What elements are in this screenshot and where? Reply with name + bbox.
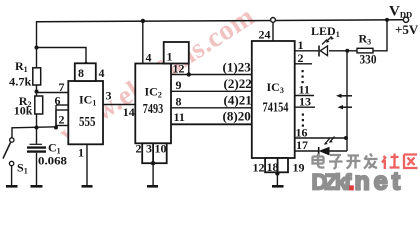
label R1 value 4.7k [9,75,32,89]
label pin 2 IC2 [136,142,142,156]
node junction R1 branch [35,46,39,50]
wire R3 to rail [373,20,387,51]
node junction LED bus [345,49,349,53]
社 [382,154,400,170]
wire bottom-left net [12,127,56,138]
wire IC1 pin 6 [56,104,68,106]
label pin 7 [59,80,65,94]
svg-text:12: 12 [253,161,265,175]
区 [404,155,418,169]
label pin 24 [259,28,271,42]
label pin 12 IC3 [253,161,265,175]
terminal pin 24 circle [271,18,276,23]
label R1 [15,59,28,74]
IC U2 pin 1 notch box [164,42,189,64]
发 [364,154,378,169]
label IC3 [267,80,284,95]
wire W4 pin11 to pin20 [171,123,252,125]
label IC1 [79,93,96,108]
label pin 8 [78,66,84,80]
label pin 9 [176,78,182,92]
label pin 18 IC3 [267,160,279,174]
wire IC3 pin 11 stub [295,95,314,97]
node ellipsis dots lower [302,114,304,127]
IC U3 bottom notch box [265,158,288,172]
node pin 8 entry [84,62,88,66]
开 [347,156,361,169]
svg-text:7493: 7493 [143,102,163,117]
node junction R2 C1 [35,126,39,130]
svg-text:24: 24 [259,28,271,42]
svg-text:330: 330 [360,52,377,67]
label (1)23 [223,61,251,75]
svg-text:DZkf.net: DZkf.net [312,168,405,194]
svg-text:LED1: LED1 [311,24,340,39]
wire IC3 ground [276,172,278,185]
label R3 [359,32,372,47]
node junction rail R3 [385,18,389,22]
svg-text:4: 4 [146,51,152,65]
label pin 6 [55,94,61,108]
wire IC3 pin 16 [295,137,346,139]
label 74154 [263,101,289,116]
watermark (decorative) [54,1,260,150]
wire W3 pin8 to pin21 [171,107,252,109]
node junction rail pin4 [141,19,145,23]
label pin 16 IC3 [296,126,308,140]
wire IC1 pin 3 to IC2 pin 14 [103,104,135,106]
wire IC3 pin 1 LED row [295,50,357,52]
svg-text:2: 2 [136,142,142,156]
svg-text:12: 12 [173,62,185,76]
label pin 11 IC3 [299,83,310,97]
label LED1 [311,24,340,39]
label C1 [48,141,61,156]
label pin 14 [123,105,135,119]
wire IC3 pin 13 stub [295,106,315,108]
label C1 value 0.068 [38,154,67,168]
op IC U1 555 main box [68,81,103,144]
ground IC1 [82,185,93,188]
svg-text:4.7k: 4.7k [9,75,32,89]
IC U3 bottom notch divider [277,158,279,172]
svg-text:2: 2 [298,51,304,65]
capacitor C1 [27,128,46,186]
label pin 3 IC2 [146,142,152,156]
wire IC3 pin 2 stub [295,63,312,65]
wire left vertical to R1 [36,22,38,68]
label (8)20 [223,110,251,124]
label pin 19 IC3 [293,161,305,175]
wire VDD top rail [36,20,404,22]
LED LED1 [319,37,334,57]
svg-text:13: 13 [299,95,311,109]
terminal VDD [403,17,408,22]
wire pin6 to pin2 net vertical [55,105,57,128]
node ellipsis dots upper [302,70,304,83]
svg-text:14: 14 [123,105,135,119]
wire IC1 pin 7 [37,92,69,94]
IC U1 pin 8 notch box [75,63,96,81]
wire pin 24 [272,22,274,41]
svg-text:19: 19 [293,161,305,175]
svg-text:8: 8 [78,66,84,80]
svg-text:7: 7 [59,80,65,94]
svg-text:1: 1 [298,38,304,52]
label (2)22 [224,77,252,91]
switch S1 [3,138,14,186]
label pin 1 IC1 [78,146,84,160]
label 555 [79,115,96,130]
label pin 1 IC3 [298,38,304,52]
label VDD [389,4,412,20]
IC U2 bottom notch divider [152,143,154,163]
wire IC2 ground [152,163,154,185]
svg-text:8: 8 [176,95,182,109]
wire IC3 pin 17 LED row [295,150,347,152]
resistor R2 [35,92,43,128]
svg-text:3: 3 [106,89,112,103]
svg-text:6: 6 [55,94,61,108]
label R3 value 330 [360,52,377,67]
node junction pin12 wire [187,72,191,76]
svg-text:(8)20: (8)20 [223,110,251,124]
wire LED bus vertical [346,51,348,151]
label pin 3 [106,89,112,103]
label R2 value 10k [14,104,33,118]
node junction pin16 bus [344,136,348,140]
label pin 17 IC3 [296,138,308,152]
wire pin1 to pin12 tie [188,64,190,75]
node junction IC2 ground [151,161,155,165]
label pin 13 IC3 [299,95,311,109]
IC U3 74154 main box [252,41,295,158]
svg-text:(1)23: (1)23 [223,61,251,75]
ground S1 [6,185,18,188]
label pin 8 IC2 [176,95,182,109]
IC U2 bottom notch box [142,143,167,163]
wire branch to IC1 pin 8 [37,48,87,64]
wire bus tick pin 11 [336,94,352,98]
ground IC3 [272,185,284,188]
label +5V [395,22,419,37]
IC U2 7493 main box [135,64,171,144]
wire bus tick pin 13 [338,105,353,109]
label R2 [19,94,32,109]
svg-text:(4)21: (4)21 [224,94,252,108]
label pin 11 IC2 [174,110,185,124]
pin box IC1 pin 2 [56,110,68,126]
svg-text:3: 3 [146,142,152,156]
label pin 10 IC2 [155,142,167,156]
label pin 2 IC3 [298,51,304,65]
wire IC1 pin 1 [86,144,88,185]
svg-text:4: 4 [99,66,105,80]
LED LED2 [319,137,335,156]
node junction R1 R2 pin7 [35,90,39,94]
resistor R3 [357,48,373,53]
svg-text:9: 9 [176,78,182,92]
wire IC2 pin 4 from rail [142,21,144,64]
svg-text:17: 17 [296,138,308,152]
svg-text:1: 1 [78,146,84,160]
ground C1 [31,185,43,188]
svg-text:74154: 74154 [263,101,289,116]
label (4)21 [224,94,252,108]
label pin 12 [173,62,185,76]
label pin 1 IC2 [167,50,173,64]
svg-text:10: 10 [155,142,167,156]
logo (decorative) [313,154,378,169]
wire W2 pin9 to pin22 [171,90,252,92]
node junction pin2 net [54,126,58,130]
label IC2 [145,85,162,100]
svg-text:2: 2 [59,113,65,127]
svg-text:11: 11 [174,110,185,124]
label 7493 [143,102,163,117]
svg-text:10k: 10k [14,104,33,118]
svg-text:0.068: 0.068 [38,154,67,168]
label pin 4 [99,66,105,80]
node junction IC3 ground [275,171,279,175]
label S1 [17,161,28,176]
svg-text:555: 555 [79,115,96,130]
子 [329,155,343,169]
svg-text:+5V: +5V [395,22,419,37]
wire W1 pin12 to pin23 [171,74,252,76]
电 [313,154,325,168]
label pin 2 [59,113,65,127]
resistor R1 [33,68,41,91]
ground IC2 [147,185,158,188]
label pin 4 IC2 [146,51,152,65]
svg-text:(2)22: (2)22 [224,77,252,91]
